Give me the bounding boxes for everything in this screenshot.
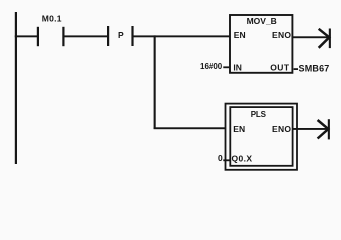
output continuation arrow (bottom rung) — [318, 119, 330, 139]
svg-text:OUT: OUT — [270, 62, 290, 72]
contact P (positive transition) — [107, 26, 134, 46]
svg-text:EN: EN — [233, 124, 245, 134]
svg-text:Q0.X: Q0.X — [232, 154, 253, 164]
svg-text:P: P — [118, 30, 124, 40]
wire: MOV_B ENO to output arrow — [293, 36, 329, 38]
function block MOV_B box outline — [230, 15, 292, 73]
svg-text:0: 0 — [218, 153, 223, 163]
svg-text:MOV_B: MOV_B — [247, 16, 277, 26]
wire: P to MOV_B EN — [133, 35, 230, 37]
svg-text:EN: EN — [234, 30, 246, 40]
svg-text:M0.1: M0.1 — [42, 14, 62, 24]
contact M0.1 (normally open) — [37, 27, 65, 46]
wire: rail to contact M0.1 — [15, 35, 38, 37]
svg-text:PLS: PLS — [251, 110, 267, 119]
function block PLS outline (selected: double border) — [226, 104, 298, 170]
operand SMB67 at OUT pin — [294, 63, 330, 73]
svg-text:ENO: ENO — [272, 30, 291, 40]
svg-text:16#00: 16#00 — [200, 62, 223, 71]
wire: M0.1 to contact P — [64, 35, 108, 37]
output continuation arrow (top rung) — [319, 29, 331, 49]
operand 16#00 at IN pin — [200, 62, 229, 71]
svg-text:SMB67: SMB67 — [299, 63, 330, 73]
branch wire down to PLS rung — [154, 35, 232, 129]
svg-text:IN: IN — [233, 62, 242, 72]
power rail (left bus bar) — [15, 12, 17, 164]
wire: PLS ENO to output arrow — [293, 128, 329, 130]
operand 0 at Q0.X pin — [218, 153, 230, 163]
svg-text:ENO: ENO — [272, 124, 291, 134]
